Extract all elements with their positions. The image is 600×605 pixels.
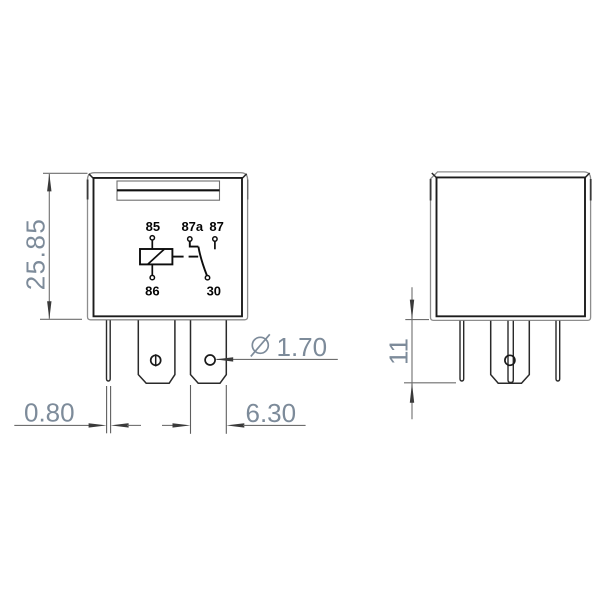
wide pin 2 hole	[205, 355, 215, 365]
dimension 6.30 left tail	[162, 424, 174, 426]
wide pin 1 hole	[151, 355, 161, 365]
node 86 circle	[150, 275, 154, 279]
dimension 25.85 line	[48, 174, 50, 319]
dimension 0.80 left tail	[14, 424, 90, 426]
edge-on blade pin right view	[508, 321, 513, 383]
svg-text:86: 86	[145, 284, 159, 299]
label band mid line	[117, 189, 220, 191]
actuator dashed link segment 1	[172, 256, 183, 258]
relay body left view right corner stub	[247, 180, 249, 200]
middle pin hole right view	[505, 355, 515, 365]
relay body left view inner contour	[94, 178, 243, 316]
thin pin left view	[107, 320, 111, 381]
dimension 6.30 right tail	[243, 424, 306, 426]
relay body right view right corner stub	[590, 179, 592, 201]
svg-text:11: 11	[384, 338, 414, 365]
wide pin 1 hole axis	[155, 354, 157, 366]
dimension 6.30 right arrow	[226, 423, 244, 427]
svg-text:6.30: 6.30	[246, 398, 297, 428]
svg-text:87a: 87a	[181, 219, 203, 234]
dimension 0.80 right tail	[127, 424, 141, 426]
dimension 11 top extension line	[405, 319, 429, 321]
wire 87 stub	[214, 241, 216, 249]
label band	[117, 181, 220, 200]
dimension 0.80 left arrow	[89, 423, 107, 427]
relay body right view left corner stub	[430, 179, 432, 201]
diameter symbol	[252, 337, 268, 353]
relay body right view outer contour	[431, 172, 591, 321]
diameter leader line	[217, 358, 338, 360]
relay body left view left corner stub	[87, 180, 89, 200]
svg-text:30: 30	[207, 284, 221, 299]
dimension 11 line	[411, 287, 413, 419]
dimension 25.85 bottom arrow	[47, 301, 51, 319]
thin pin A right view	[460, 321, 464, 381]
svg-text:25.85: 25.85	[21, 218, 51, 291]
middle wide pin right view	[491, 321, 530, 383]
coil K1	[140, 249, 172, 264]
svg-text:85: 85	[146, 219, 160, 234]
dimension 6.30 left extension line	[190, 385, 192, 434]
relay body left view top-left corner chamfer	[89, 174, 94, 179]
dimension 25.85 bottom extension line	[40, 318, 82, 320]
dimension 11 bottom extension line	[404, 382, 456, 384]
node 85 circle	[150, 236, 154, 240]
relay body right view inner contour	[437, 177, 586, 316]
dimension 0.80 right extension line	[110, 386, 112, 433]
svg-text:87: 87	[209, 219, 223, 234]
svg-text:1.70: 1.70	[277, 332, 328, 362]
dimension 0.80 right arrow	[111, 423, 129, 427]
wide pin 2 left view	[191, 320, 227, 383]
actuator dashed link segment 2	[189, 256, 199, 258]
dimension 6.30 right extension line	[225, 385, 227, 434]
relay body left view outer contour	[88, 173, 248, 320]
svg-text:0.80: 0.80	[24, 397, 75, 427]
dimension 11 up arrow	[410, 383, 414, 403]
wire 85 to coil	[151, 240, 153, 249]
dimension 6.30 left arrow	[173, 423, 191, 427]
node 87a circle	[188, 237, 192, 241]
node 87 circle	[213, 237, 217, 241]
dimension 11 down arrow	[410, 300, 414, 320]
relay body left view top-right corner chamfer	[242, 174, 247, 179]
dimension 25.85 top arrow	[47, 173, 51, 191]
diameter symbol slash	[251, 334, 270, 356]
thin pin B right view	[556, 321, 560, 381]
wire 87a contact	[190, 241, 199, 246]
dimension 25.85 top extension line	[43, 172, 88, 174]
diameter leader arrow	[215, 357, 233, 361]
switch blade to 30	[198, 247, 207, 276]
dimension 0.80 left extension line	[106, 386, 108, 433]
relay body right view top-right corner chamfer	[585, 173, 590, 178]
wire coil to 86	[151, 264, 153, 275]
coil diagonal	[148, 249, 164, 264]
wide pin 1 left view	[138, 320, 175, 383]
relay body right view top-left corner chamfer	[432, 173, 437, 178]
node 30 circle	[205, 276, 209, 280]
